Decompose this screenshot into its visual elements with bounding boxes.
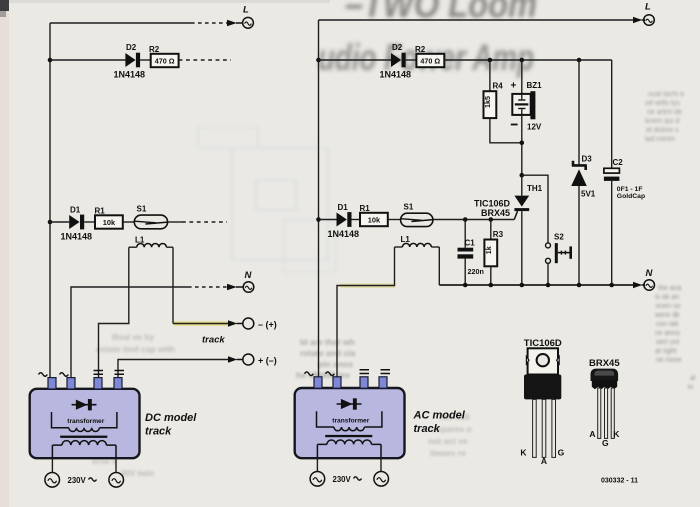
svg-text:track: track (145, 426, 172, 438)
arrow to track minus terminal (228, 320, 243, 326)
terminal pin 4 (=) (114, 378, 122, 389)
svg-text:AC model: AC model (413, 410, 466, 422)
svg-text:BRX45: BRX45 (481, 208, 510, 218)
terminal N (243, 270, 254, 293)
wire after S1 (168, 221, 182, 223)
mains source symbol right (230V) (109, 473, 124, 488)
svg-text:pin anos: pin anos (318, 359, 353, 369)
svg-text:S2: S2 (554, 232, 564, 241)
terminal track plus (243, 354, 277, 365)
resistor R3 (484, 220, 504, 286)
pushbutton S2 (546, 232, 573, 263)
node: junction R3 bottom (489, 283, 494, 288)
terminal pin 3 (=) (94, 378, 102, 389)
svg-text:GoldCap: GoldCap (617, 193, 645, 200)
wire left rail (AC circuit) (318, 20, 320, 378)
svg-text:D1: D1 (338, 203, 349, 212)
svg-text:were dk: were dk (654, 312, 680, 319)
wire D1 row (319, 219, 337, 221)
wire D3 anode down (578, 186, 580, 285)
svg-text:030332 - 11: 030332 - 11 (601, 477, 638, 484)
svg-text:230V: 230V (333, 475, 352, 484)
zener diode D3 (571, 154, 596, 198)
package drawing BRX45 (TO-92) (589, 358, 620, 448)
terminal L (right) (644, 2, 655, 26)
node: junction C1 bottom (463, 283, 468, 288)
svg-text:TIC106D: TIC106D (474, 198, 511, 208)
svg-text:the ana: the ana (658, 285, 681, 292)
wire L1 left leg to transformer terminal 2 (337, 247, 395, 378)
wire track minus line (173, 323, 228, 325)
svg-text:BZ1: BZ1 (527, 81, 543, 90)
svg-text:not act ve: not act ve (428, 436, 468, 446)
node: junction D3 bottom (577, 283, 582, 288)
wire R4 bottom lead to BZ1 node (490, 118, 522, 143)
svg-text:S1: S1 (137, 204, 147, 213)
pin label = (pin3) (94, 371, 104, 375)
mains source symbol right (230V AC) (374, 472, 389, 487)
inductor L1 (129, 236, 173, 248)
wire D2 to R2 (140, 59, 151, 61)
svg-text:even so: even so (656, 303, 681, 310)
arrow to terminal L (right) (633, 17, 645, 23)
wire top rail to L (319, 19, 635, 21)
transformer primary winding (52, 441, 116, 459)
svg-text:Real ve hy: Real ve hy (112, 332, 154, 342)
svg-text:R1: R1 (95, 206, 106, 215)
svg-text:S1: S1 (404, 202, 414, 211)
svg-text:L: L (645, 2, 651, 13)
label DC model track (145, 412, 197, 438)
node: junction D3 top (577, 58, 582, 63)
pin label = (pin3) (360, 370, 370, 374)
node: junction TH1 cathode bottom (520, 283, 525, 288)
svg-text:10k: 10k (368, 216, 381, 225)
wire BZ1 bottom lead (521, 115, 523, 175)
wire L1 left leg down (99, 247, 129, 378)
svg-text:D1: D1 (70, 206, 81, 215)
resistor R2 (right) (415, 45, 444, 67)
transformer TR2 (AC) box (295, 388, 405, 458)
terminal pin 2 (~) (333, 377, 341, 388)
value label 230V~ (68, 476, 97, 485)
mains source symbol left (230V AC) (310, 472, 325, 487)
svg-text:K: K (613, 429, 620, 439)
svg-text:estate tind cap with: estate tind cap with (96, 344, 175, 354)
diode D2 (125, 43, 140, 67)
wire R4 top lead (489, 60, 491, 91)
wire dashed after R2 (179, 59, 231, 61)
svg-text:+: + (511, 81, 517, 92)
svg-text:DC model: DC model (145, 412, 197, 424)
transformer TR1 (DC) box (30, 389, 140, 458)
terminal pin 2 (~) (67, 378, 75, 389)
transformer internal diode symbol (72, 399, 97, 410)
wire TH1 cathode (521, 211, 523, 285)
svg-text:C1: C1 (465, 239, 476, 248)
svg-text:ne more: ne more (656, 357, 682, 364)
node: junction TH1 anode / S2 branch (520, 173, 525, 178)
wire D3 branch (578, 60, 580, 164)
wire mains lead right (115, 458, 117, 472)
arrow to terminal N (right) (633, 282, 645, 288)
node: junction left rail / D1 row (316, 217, 321, 222)
pin label ~ (pin2) (60, 373, 69, 377)
svg-text:230V: 230V (68, 476, 87, 485)
svg-text:10k: 10k (103, 218, 116, 227)
transformer primary winding (AC) (317, 440, 381, 458)
svg-text:lad minim: lad minim (645, 136, 675, 143)
wire D2 row (50, 59, 125, 61)
wire mains lead left (AC) (316, 458, 318, 471)
wire D1 to R1 (352, 219, 361, 221)
wire L1 right leg to N rail (438, 247, 440, 285)
svg-text:liwees re: liwees re (430, 448, 466, 458)
wire R1 to S1 (123, 221, 135, 223)
wire D1 row (50, 221, 69, 223)
svg-text:A: A (589, 429, 595, 439)
reed switch S1 (134, 204, 167, 229)
pin label = (pin4) (381, 370, 391, 374)
wire dashed continuation of L rail (191, 22, 227, 24)
capacitor C2 (GoldCap) (604, 158, 645, 285)
wire R1 to S1 (388, 219, 401, 221)
transformer core bar (AC) (325, 435, 372, 437)
svg-text:5V1: 5V1 (581, 190, 596, 199)
wire mains lead left (51, 458, 53, 472)
terminal pin 1 (~) (48, 378, 56, 389)
svg-text:L: L (243, 4, 249, 15)
pin label ~ (pin1) (39, 373, 48, 377)
capacitor C1 (458, 220, 484, 286)
svg-text:1k5: 1k5 (483, 96, 492, 108)
mains source symbol left (230V) (45, 473, 60, 488)
svg-text:TIC106D: TIC106D (524, 338, 562, 349)
wire top rail to L (50, 22, 191, 24)
value label 230V~ (AC) (333, 475, 362, 484)
pin label = (pin4) (115, 371, 125, 375)
terminal pin 3 (=) (360, 377, 368, 388)
diode D2 (right) (391, 43, 406, 67)
wire dashed N line (188, 286, 227, 288)
svg-text:track: track (202, 334, 225, 345)
pin label ~ (pin1) (305, 372, 314, 376)
svg-text:con tak: con tak (656, 321, 679, 328)
svg-text:in: in (688, 384, 694, 391)
transformer secondary winding (52, 412, 117, 432)
svg-text:N: N (245, 270, 253, 281)
svg-text:R2: R2 (415, 45, 426, 54)
diode D1 (right) (337, 203, 352, 227)
svg-text:1k: 1k (484, 246, 493, 254)
svg-text:uual tachi a: uual tachi a (648, 91, 684, 98)
svg-text:C2: C2 (613, 158, 624, 167)
pin label ~ (pin2) (326, 372, 335, 376)
terminal pin 1 (~) (314, 377, 322, 388)
thyristor TH1 (514, 184, 542, 219)
svg-text:et dolore s: et dolore s (646, 127, 679, 134)
svg-text:al: al (690, 375, 696, 382)
node: junction left rail / D2 row (48, 58, 53, 63)
wire BZ1 top lead (521, 60, 523, 94)
terminal L (243, 4, 254, 28)
reed switch S1 (right) (401, 202, 433, 226)
wire S1 to TH1 gate (433, 219, 514, 221)
svg-text:rotate and cla: rotate and cla (300, 348, 356, 358)
wire TH1 anode (521, 175, 523, 195)
svg-text:ld are that wh: ld are that wh (300, 337, 355, 347)
node: junction left rail / D1 row (48, 220, 53, 225)
node: junction C1 top (463, 217, 468, 222)
svg-text:30V lwin: 30V lwin (120, 468, 154, 478)
svg-text:470 Ω: 470 Ω (155, 57, 175, 66)
svg-text:at right: at right (655, 348, 676, 355)
wire bottom N rail (439, 284, 634, 286)
wire C2 branch from R2 row (611, 60, 613, 168)
inductor L1 (right) (395, 235, 440, 247)
svg-text:R1: R1 (360, 204, 371, 213)
wire dashed continuation after S1 (182, 221, 227, 223)
svg-text:TH1: TH1 (527, 184, 543, 193)
terminal pin 4 (=) (379, 377, 387, 388)
transformer secondary winding (AC) (317, 411, 382, 431)
wire N line from transformer terminal 2 (71, 287, 188, 378)
svg-text:D2: D2 (126, 43, 137, 52)
svg-text:he UM406 lev: he UM406 lev (296, 370, 350, 380)
svg-text:1N4148: 1N4148 (380, 70, 412, 80)
package drawing TIC106D (TO-220) (520, 338, 564, 466)
svg-text:track: track (414, 423, 441, 435)
svg-text:0F1 - 1F: 0F1 - 1F (617, 186, 643, 193)
svg-text:L1: L1 (135, 236, 145, 245)
node: junction C2 bottom (609, 283, 614, 288)
wire L1 right leg down to track minus (172, 247, 174, 323)
svg-text:ne artmi de: ne artmi de (647, 109, 682, 116)
diode D1 (69, 206, 84, 230)
svg-text:R2: R2 (149, 45, 160, 54)
wire D2 to R2 (406, 59, 417, 61)
svg-text:+ (–): + (–) (258, 355, 277, 365)
svg-text:od sello tys: od sello tys (645, 100, 681, 107)
svg-text:transformer: transformer (67, 418, 104, 425)
svg-text:–TWO Loom: –TWO Loom (345, 0, 537, 26)
svg-text:D3: D3 (582, 154, 593, 163)
arrow to terminal L (227, 20, 242, 26)
svg-text:sert unt: sert unt (656, 339, 679, 346)
transformer internal diode symbol (AC) (337, 398, 362, 409)
highlighter mark on terminal 2 link (340, 283, 395, 287)
svg-text:is ok an: is ok an (655, 294, 679, 301)
node: junction S2 bottom (546, 283, 551, 288)
svg-text:– (+): – (+) (258, 319, 277, 329)
svg-text:1N4148: 1N4148 (114, 70, 146, 80)
wire mains lead right (AC) (380, 458, 382, 471)
wire D2 row (319, 59, 392, 61)
resistor R2 (149, 45, 179, 67)
svg-text:1N4148: 1N4148 (61, 232, 93, 242)
wire S2 bottom lead (547, 263, 549, 285)
arrow to track plus terminal (228, 356, 243, 362)
svg-text:470 Ω: 470 Ω (420, 57, 440, 66)
resistor R1 (95, 206, 123, 228)
node: junction left rail / D2 row (316, 58, 321, 63)
terminal N (right) (644, 268, 655, 290)
terminal track minus (243, 318, 277, 329)
node: junction BZ1 top (520, 58, 525, 63)
wire R2 row to C2 corner (444, 59, 611, 61)
node: junction R4 top (488, 58, 493, 63)
svg-text:lorem ips d: lorem ips d (645, 118, 679, 125)
svg-text:220n: 220n (468, 267, 484, 276)
svg-text:ce anno: ce anno (655, 330, 680, 337)
wire left rail (DC circuit) (49, 23, 51, 378)
resistor R4 (483, 82, 503, 119)
label AC model track (413, 410, 466, 436)
svg-text:L1: L1 (401, 235, 411, 244)
svg-text:G: G (558, 447, 565, 457)
arrow to terminal N (227, 284, 243, 290)
svg-text:G: G (602, 438, 609, 448)
battery BZ1 (511, 81, 543, 132)
svg-text:R4: R4 (493, 82, 504, 91)
wire track plus line from transformer terminal 4 (118, 360, 228, 379)
svg-text:transformer: transformer (332, 418, 369, 425)
node: junction R4/BZ1 (520, 141, 525, 146)
svg-text:D2: D2 (392, 43, 403, 52)
svg-text:N: N (646, 268, 654, 279)
resistor R1 (right) (360, 204, 388, 226)
highlighter mark on track line (174, 321, 231, 326)
wire D1 to R1 (84, 221, 95, 223)
transformer core bar (60, 436, 107, 438)
wire S2 branch (522, 175, 548, 243)
svg-text:12V: 12V (527, 122, 542, 131)
node: junction R3 top (489, 217, 494, 222)
svg-text:A: A (541, 456, 547, 466)
svg-text:R3: R3 (493, 230, 504, 239)
svg-text:BRX45: BRX45 (589, 358, 620, 369)
svg-text:K: K (520, 447, 527, 457)
svg-text:1N4148: 1N4148 (328, 229, 360, 239)
